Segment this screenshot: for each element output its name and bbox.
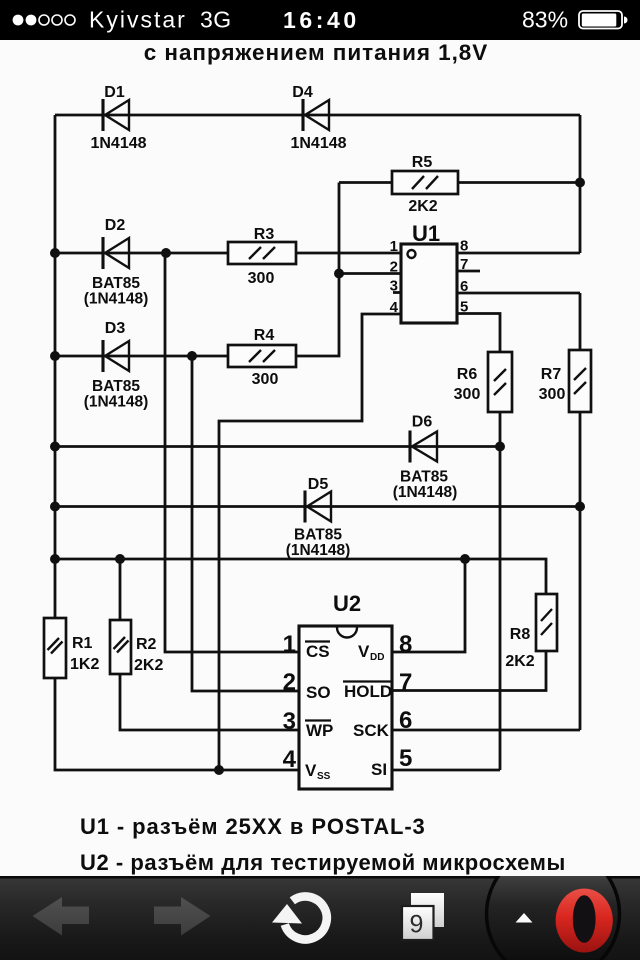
svg-text:4: 4 bbox=[283, 746, 297, 773]
svg-text:WP: WP bbox=[306, 721, 333, 740]
wire D3 row left bbox=[55, 355, 229, 358]
svg-text:SO: SO bbox=[306, 683, 331, 702]
svg-text:R2: R2 bbox=[136, 636, 157, 653]
svg-text:BAT85: BAT85 bbox=[92, 378, 140, 395]
pin 1 (U1) bbox=[390, 238, 398, 255]
svg-text:300: 300 bbox=[248, 270, 275, 287]
signal dot 2 (filled) bbox=[26, 15, 37, 26]
wire R7 bottom rail x=580 bbox=[579, 412, 582, 730]
svg-text:U2: U2 bbox=[333, 591, 361, 616]
wire R5 left lead bbox=[339, 181, 392, 184]
wire right rail top x=580 bbox=[579, 115, 582, 253]
wire R2 bottom to U2 pin3 bbox=[120, 674, 299, 730]
pin 5 (U2) bbox=[399, 745, 412, 772]
pin 4 (U1) bbox=[390, 299, 399, 316]
diode D5 bbox=[305, 491, 331, 523]
value (1N4148) (D3) bbox=[84, 394, 149, 411]
resistor R4 bbox=[228, 345, 296, 367]
svg-text:SS: SS bbox=[317, 771, 331, 782]
svg-text:D1: D1 bbox=[104, 84, 125, 101]
diode D2 bbox=[103, 237, 129, 269]
svg-text:16:40: 16:40 bbox=[283, 7, 360, 33]
value 2K2 (R2) bbox=[134, 657, 163, 674]
svg-text:Kyivstar: Kyivstar bbox=[89, 7, 187, 33]
signal dot 5 (hollow) bbox=[65, 15, 75, 25]
svg-text:3G: 3G bbox=[200, 7, 232, 33]
pin name WP (U2) bbox=[305, 721, 333, 741]
svg-text:300: 300 bbox=[539, 386, 566, 403]
battery icon body bbox=[579, 11, 622, 29]
svg-text:R5: R5 bbox=[412, 154, 433, 171]
label R1 bbox=[72, 635, 93, 652]
svg-text:3: 3 bbox=[283, 708, 296, 735]
op-amp U1 body bbox=[401, 244, 457, 323]
value 1N4148 (D4) bbox=[290, 135, 346, 152]
value 2K2 (R8) bbox=[505, 653, 534, 670]
wire U1 pin5 lead to R6 top bbox=[457, 314, 500, 353]
svg-text:U1: U1 bbox=[412, 221, 440, 246]
svg-text:4: 4 bbox=[390, 299, 399, 316]
value 2K2 (R5) bbox=[408, 198, 437, 215]
pin 7 (U2) bbox=[399, 669, 412, 696]
pin 8 (U2) bbox=[399, 631, 412, 658]
junction dot U1 pin2 / x=339 bbox=[334, 269, 344, 279]
svg-text:D3: D3 bbox=[105, 320, 126, 337]
label R8 bbox=[510, 626, 531, 643]
value (1N4148) (D5) bbox=[286, 542, 351, 559]
wire U1 pin6 row bbox=[457, 292, 580, 295]
opera panel circle bbox=[487, 848, 620, 960]
junction dot left rail / D2 row bbox=[50, 248, 60, 258]
pin 1 (U2) bbox=[283, 631, 296, 658]
svg-text:2K2: 2K2 bbox=[134, 657, 163, 674]
svg-text:6: 6 bbox=[460, 278, 468, 295]
svg-text:DD: DD bbox=[370, 652, 384, 663]
label D5 bbox=[308, 476, 329, 493]
svg-text:2K2: 2K2 bbox=[505, 653, 534, 670]
label D6 bbox=[412, 414, 433, 431]
junction dot bus row / R2 top bbox=[115, 554, 125, 564]
battery icon fill bbox=[582, 14, 617, 27]
svg-text:(1N4148): (1N4148) bbox=[84, 291, 149, 308]
pin 2 (U2) bbox=[283, 669, 296, 696]
svg-text:D2: D2 bbox=[105, 217, 126, 234]
value 300 (R7) bbox=[539, 386, 566, 403]
svg-text:1N4148: 1N4148 bbox=[90, 135, 146, 152]
resistor R5 bbox=[392, 171, 458, 194]
forward arrow button bbox=[154, 897, 211, 936]
resistor R8 bbox=[536, 594, 557, 651]
wire top rail y=113 bbox=[55, 114, 580, 117]
svg-text:с напряжением питания 1,8V: с напряжением питания 1,8V bbox=[144, 40, 488, 65]
pin 3 (U2) bbox=[283, 708, 296, 735]
wire U1 pin4 lead bbox=[219, 314, 401, 770]
svg-text:2: 2 bbox=[390, 259, 398, 276]
label R2 bbox=[136, 636, 157, 653]
value BAT85 (D3) bbox=[92, 378, 140, 395]
svg-text:5: 5 bbox=[399, 745, 412, 772]
wire D2 row left bbox=[55, 252, 229, 255]
value (1N4148) (D6) bbox=[393, 484, 458, 501]
status bar background bbox=[0, 0, 640, 40]
svg-text:1K2: 1K2 bbox=[70, 656, 99, 673]
value 1N4148 (D1) bbox=[90, 135, 146, 152]
wire U2 pin5 row right bbox=[392, 769, 500, 772]
wire U1 pin8 row bbox=[457, 252, 580, 255]
label R7 bbox=[541, 366, 562, 383]
signal dot 1 (filled) bbox=[13, 15, 24, 26]
svg-text:3: 3 bbox=[390, 278, 398, 295]
resistor R2 bbox=[110, 620, 131, 674]
svg-text:R3: R3 bbox=[254, 226, 275, 243]
wire U2 pin8 riser x=465 bbox=[392, 559, 465, 652]
label R4 bbox=[254, 327, 275, 344]
wire U1 pin3 stub bbox=[393, 291, 401, 294]
svg-text:BAT85: BAT85 bbox=[400, 469, 448, 486]
junction dot bus row / U2 pin8 riser bbox=[460, 554, 470, 564]
diode D6 bbox=[410, 431, 437, 463]
svg-text:D4: D4 bbox=[292, 84, 313, 101]
label D4 bbox=[292, 84, 313, 101]
wire D6 row bbox=[55, 445, 500, 448]
label U2 bbox=[333, 591, 361, 616]
svg-text:2: 2 bbox=[283, 669, 296, 696]
pin 6 (U1) bbox=[460, 278, 468, 295]
svg-text:(1N4148): (1N4148) bbox=[286, 542, 351, 559]
label R5 bbox=[412, 154, 433, 171]
svg-text:300: 300 bbox=[454, 386, 481, 403]
value 300 (R3) bbox=[248, 270, 275, 287]
value 300 (R6) bbox=[454, 386, 481, 403]
svg-text:D5: D5 bbox=[308, 476, 329, 493]
junction dot U2 pin4 row / x=219 bbox=[214, 765, 224, 775]
wire R7 top lead x=580 bbox=[579, 293, 582, 350]
wire U2 pin1 lead x=165 bbox=[165, 253, 299, 652]
expand up-triangle bbox=[516, 913, 533, 923]
wire bus row y=559 to R8 top bbox=[55, 559, 546, 594]
svg-text:BAT85: BAT85 bbox=[92, 275, 140, 292]
back arrow button bbox=[33, 897, 90, 936]
svg-text:300: 300 bbox=[252, 371, 279, 388]
svg-text:BAT85: BAT85 bbox=[294, 527, 342, 544]
resistor R6 bbox=[488, 352, 512, 412]
svg-text:1N4148: 1N4148 bbox=[290, 135, 346, 152]
svg-text:83%: 83% bbox=[522, 7, 568, 33]
svg-text:9: 9 bbox=[410, 911, 424, 939]
wire U2 pin6 row right bbox=[392, 729, 580, 732]
svg-text:V: V bbox=[305, 761, 317, 780]
svg-text:7: 7 bbox=[460, 256, 468, 273]
label D3 bbox=[105, 320, 126, 337]
junction dot D5 row / R7 rail bbox=[575, 502, 585, 512]
svg-text:SI: SI bbox=[371, 760, 387, 779]
svg-text:1: 1 bbox=[390, 238, 398, 255]
svg-text:5: 5 bbox=[460, 299, 468, 316]
wire U1 pin7 stub bbox=[457, 270, 480, 273]
svg-text:(1N4148): (1N4148) bbox=[393, 484, 458, 501]
svg-text:R7: R7 bbox=[541, 366, 562, 383]
IC U2 body bbox=[299, 626, 392, 789]
svg-text:8: 8 bbox=[399, 631, 412, 658]
svg-text:U2 - разъём для тестируемой ми: U2 - разъём для тестируемой микросхемы bbox=[80, 850, 566, 875]
opera logo O bbox=[556, 889, 613, 953]
reload button bbox=[272, 896, 327, 939]
junction dot D6 row / R6 rail bbox=[495, 442, 505, 452]
value 300 (R4) bbox=[252, 371, 279, 388]
svg-text:2K2: 2K2 bbox=[408, 198, 437, 215]
pin 5 (U1) bbox=[460, 299, 468, 316]
wire R1 bottom to U2 pin4 bbox=[55, 678, 299, 771]
pin name VDD (U2) bbox=[358, 642, 384, 663]
wire D5 row bbox=[55, 505, 580, 508]
pin 2 (U1) bbox=[390, 259, 398, 276]
pin name VSS (U2) bbox=[305, 761, 331, 782]
svg-text:R4: R4 bbox=[254, 327, 275, 344]
value BAT85 (D6) bbox=[400, 469, 448, 486]
wire U2 pin2 lead x=192 bbox=[192, 356, 299, 691]
svg-text:6: 6 bbox=[399, 707, 412, 734]
resistor R7 bbox=[569, 350, 591, 412]
bottom toolbar background bbox=[0, 876, 640, 960]
value 1K2 (R1) bbox=[70, 656, 99, 673]
wire R5 right lead bbox=[458, 181, 580, 184]
label R6 bbox=[457, 366, 478, 383]
svg-text:D6: D6 bbox=[412, 414, 433, 431]
label D1 bbox=[104, 84, 125, 101]
junction dot left rail / D5 row bbox=[50, 502, 60, 512]
svg-text:V: V bbox=[358, 642, 370, 661]
signal dot 4 (hollow) bbox=[52, 15, 62, 25]
pin name SCK (U2) bbox=[353, 721, 390, 740]
wire left rail x=55 bbox=[54, 115, 57, 620]
pin name SI (U2) bbox=[371, 760, 387, 779]
resistor R3 bbox=[228, 242, 296, 264]
svg-text:7: 7 bbox=[399, 669, 412, 696]
pin 7 (U1) bbox=[460, 256, 468, 273]
pin 8 (U1) bbox=[460, 238, 468, 255]
pin 6 (U2) bbox=[399, 707, 412, 734]
label U1 bbox=[412, 221, 440, 246]
svg-text:R6: R6 bbox=[457, 366, 478, 383]
wire U1 pin2 lead bbox=[339, 272, 401, 275]
svg-text:(1N4148): (1N4148) bbox=[84, 394, 149, 411]
label R3 bbox=[254, 226, 275, 243]
label D2 bbox=[105, 217, 126, 234]
svg-text:SCK: SCK bbox=[353, 721, 390, 740]
wire R8 bottom to U2 pin7 bbox=[392, 651, 546, 691]
junction dot R5 right / right rail bbox=[575, 178, 585, 188]
wire R2 top lead x=120 bbox=[119, 559, 122, 620]
value (1N4148) (D2) bbox=[84, 291, 149, 308]
junction dot D3-R4 node bbox=[187, 351, 197, 361]
tabs button with count 9 bbox=[402, 893, 444, 940]
svg-text:8: 8 bbox=[460, 238, 468, 255]
junction dot left rail / D3 row bbox=[50, 351, 60, 361]
diode D4 bbox=[303, 99, 329, 131]
pin name HOLD (U2) bbox=[343, 682, 392, 702]
value BAT85 (D5) bbox=[294, 527, 342, 544]
wire R6 bottom rail x=500 bbox=[499, 412, 502, 770]
pin 4 (U2) bbox=[283, 746, 297, 773]
signal dot 3 (hollow) bbox=[39, 15, 49, 25]
svg-text:U1 - разъём 25XX в POSTAL-3: U1 - разъём 25XX в POSTAL-3 bbox=[80, 814, 426, 839]
resistor R1 bbox=[44, 618, 66, 678]
svg-text:R8: R8 bbox=[510, 626, 531, 643]
battery icon nub bbox=[624, 17, 628, 24]
value BAT85 (D2) bbox=[92, 275, 140, 292]
svg-text:R1: R1 bbox=[72, 635, 93, 652]
svg-text:CS: CS bbox=[306, 642, 330, 661]
junction dot left rail / D6 row bbox=[50, 442, 60, 452]
wire R5-left to R4-right vertical x=339 bbox=[295, 183, 339, 357]
pin 3 (U1) bbox=[390, 278, 398, 295]
svg-text:1: 1 bbox=[283, 631, 296, 658]
junction dot D2-R3 node bbox=[161, 248, 171, 258]
diode D1 bbox=[103, 99, 129, 131]
svg-text:HOLD: HOLD bbox=[344, 682, 392, 701]
pin name CS (U2) bbox=[305, 642, 330, 662]
junction dot left rail / bus row bbox=[50, 554, 60, 564]
pin name SO (U2) bbox=[306, 683, 331, 702]
diode D3 bbox=[103, 340, 129, 372]
wire R3 to U1 pin1 bbox=[295, 252, 401, 255]
